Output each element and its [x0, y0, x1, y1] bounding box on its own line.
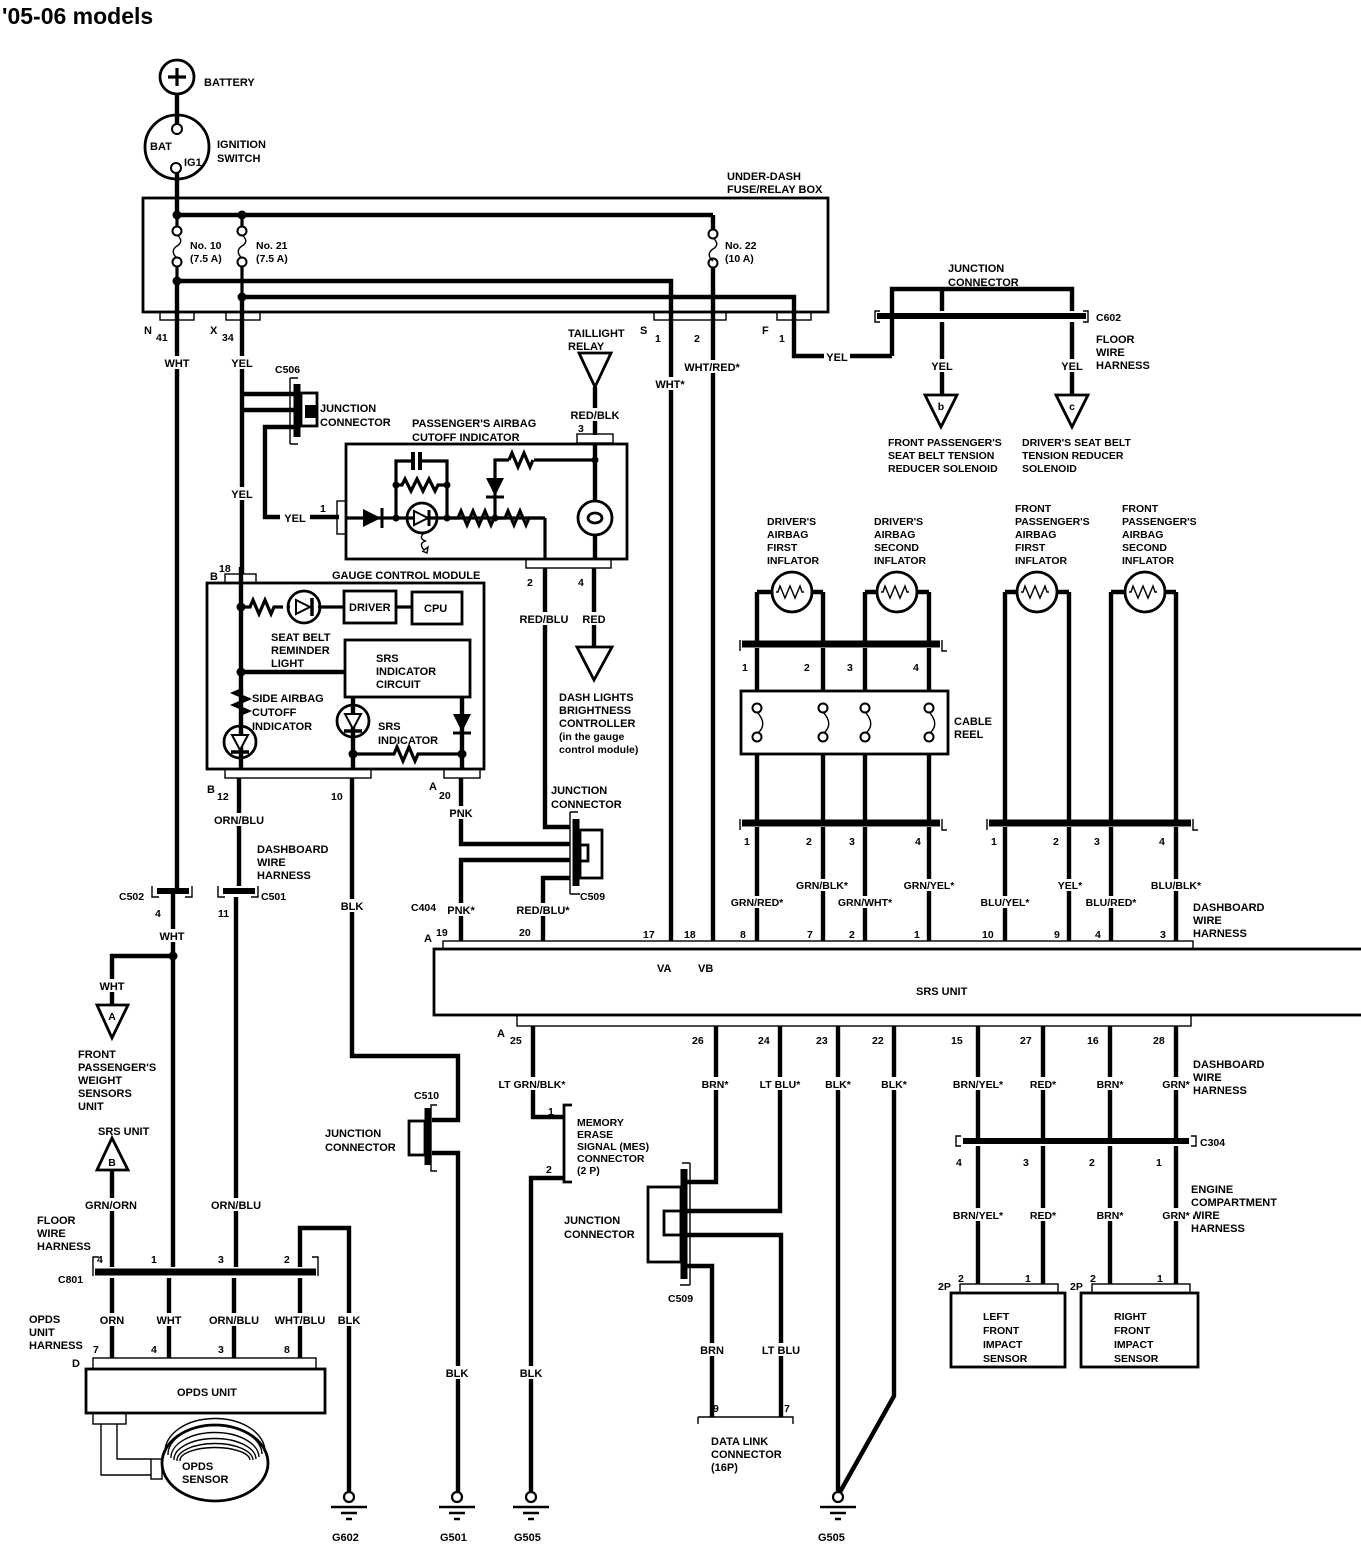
bus wire C (fuse21 out to pin F)	[242, 297, 794, 312]
svg-text:c: c	[1069, 401, 1075, 413]
svg-text:RED: RED	[582, 614, 605, 626]
svg-text:SEAT BELT: SEAT BELT	[271, 632, 331, 644]
svg-text:BATTERY: BATTERY	[204, 77, 255, 89]
svg-text:OPDS: OPDS	[29, 1314, 60, 1326]
svg-text:UNDER-DASH: UNDER-DASH	[727, 171, 801, 183]
svg-text:REDUCER SOLENOID: REDUCER SOLENOID	[888, 463, 998, 475]
fuse No.21 (7.5A)	[238, 219, 288, 293]
svg-text:WHT: WHT	[99, 981, 124, 993]
front passenger's airbag first inflator	[1005, 503, 1090, 612]
node G3	[349, 750, 358, 759]
svg-text:CONNECTOR: CONNECTOR	[325, 1142, 396, 1154]
SRS unit box	[434, 941, 1361, 1026]
wire branch to triangle A	[112, 956, 173, 1005]
svg-text:TAILLIGHT: TAILLIGHT	[568, 328, 625, 340]
node J1	[492, 515, 499, 522]
svg-text:C801: C801	[58, 1274, 83, 1286]
svg-text:WHT: WHT	[164, 358, 189, 370]
svg-text:ORN/BLU: ORN/BLU	[214, 815, 264, 827]
wire RED/BLU down to junction connector	[545, 568, 570, 827]
svg-text:b: b	[938, 401, 944, 413]
svg-text:1: 1	[151, 1254, 157, 1266]
wire WHT C502 down to C801 pin1	[171, 891, 175, 1267]
svg-text:12: 12	[217, 791, 229, 803]
wire ORN/BLU gauge pin12 to C501	[237, 778, 241, 886]
memory erase signal connector	[564, 1105, 649, 1182]
svg-text:1: 1	[1156, 1157, 1162, 1169]
svg-text:3: 3	[849, 836, 855, 848]
svg-text:CPU: CPU	[424, 603, 447, 615]
node G1	[237, 603, 246, 612]
svg-text:20: 20	[519, 927, 531, 939]
svg-text:AIRBAG: AIRBAG	[1122, 529, 1163, 541]
svg-text:3: 3	[218, 1344, 224, 1356]
wire to pin 2	[543, 518, 546, 559]
svg-text:FRONT: FRONT	[78, 1049, 116, 1061]
svg-text:1: 1	[1157, 1273, 1163, 1285]
svg-text:FIRST: FIRST	[767, 542, 798, 554]
node G4	[458, 750, 467, 759]
side airbag cutoff resistor (vertical)	[234, 690, 248, 714]
svg-text:BRN*: BRN*	[1097, 1079, 1125, 1091]
wires upper bar to cable reel	[757, 648, 929, 691]
svg-text:HARNESS: HARNESS	[1096, 360, 1150, 372]
connector C801	[58, 1254, 318, 1286]
svg-text:FRONT PASSENGER'S: FRONT PASSENGER'S	[888, 437, 1002, 449]
svg-text:1: 1	[779, 333, 785, 345]
wire pin2 WHT/RED* down to SRS pin 18	[711, 312, 715, 941]
resistor R3 bottom	[353, 747, 462, 761]
svg-text:HARNESS: HARNESS	[1193, 928, 1247, 940]
svg-text:RED/BLU: RED/BLU	[520, 614, 569, 626]
svg-text:4: 4	[97, 1254, 103, 1266]
svg-text:FRONT: FRONT	[983, 1325, 1020, 1337]
svg-text:HARNESS: HARNESS	[1191, 1223, 1245, 1235]
svg-text:FRONT: FRONT	[1122, 503, 1159, 515]
side airbag cutoff indicator lamp	[224, 726, 256, 758]
svg-text:A: A	[429, 781, 437, 793]
svg-text:SOLENOID: SOLENOID	[1022, 463, 1077, 475]
svg-text:CONNECTOR: CONNECTOR	[577, 1153, 645, 1165]
node J2 top right	[592, 457, 599, 464]
svg-text:DRIVER: DRIVER	[349, 602, 391, 614]
svg-text:C304: C304	[1200, 1137, 1225, 1149]
svg-text:3: 3	[1023, 1157, 1029, 1169]
dash lights brightness controller arrow	[559, 647, 638, 756]
svg-text:(10 A): (10 A)	[725, 253, 754, 265]
OPDS sensor connector	[151, 1459, 162, 1479]
wire SRS pin26 BRN* to junction connector	[687, 1026, 716, 1182]
wire PNK* out to SRS pin 19	[461, 860, 570, 941]
svg-text:1: 1	[742, 662, 748, 674]
svg-text:BRN/YEL*: BRN/YEL*	[953, 1079, 1004, 1091]
pin X/34 tab	[226, 312, 260, 320]
wire LT BLU out to DLC pin7	[687, 1235, 781, 1417]
svg-text:2: 2	[546, 1164, 552, 1176]
wires passenger inflators to lower bar	[1005, 592, 1176, 820]
svg-text:INFLATOR: INFLATOR	[1015, 555, 1068, 567]
svg-text:3: 3	[578, 423, 584, 435]
svg-text:3: 3	[1160, 929, 1166, 941]
wire YEL to triangle c	[1070, 322, 1074, 395]
wire PNK gauge pin20 to junction connector	[461, 778, 570, 844]
svg-text:UNIT: UNIT	[29, 1327, 55, 1339]
wire N41 WHT down	[175, 281, 179, 888]
svg-text:1: 1	[320, 503, 326, 515]
connector C304	[956, 1136, 1225, 1169]
wire BRN out to DLC pin9	[687, 1266, 712, 1417]
svg-text:G505: G505	[514, 1532, 541, 1544]
svg-text:SENSOR: SENSOR	[182, 1474, 229, 1486]
wire ignition to fuse box bus	[175, 173, 179, 216]
svg-text:GRN/YEL*: GRN/YEL*	[904, 880, 956, 892]
svg-text:4: 4	[915, 836, 921, 848]
svg-text:X: X	[210, 325, 218, 337]
svg-text:LT GRN/BLK*: LT GRN/BLK*	[499, 1079, 567, 1091]
junction connector C510	[325, 1090, 439, 1171]
svg-text:AIRBAG: AIRBAG	[1015, 529, 1056, 541]
svg-text:D: D	[72, 1358, 80, 1370]
wire driver-cpu	[396, 605, 412, 608]
svg-text:RED/BLK: RED/BLK	[571, 410, 620, 422]
svg-text:GRN/BLK*: GRN/BLK*	[796, 880, 849, 892]
svg-text:HARNESS: HARNESS	[29, 1340, 83, 1352]
pin N/41 tab	[160, 312, 194, 320]
svg-text:CONNECTOR: CONNECTOR	[564, 1229, 635, 1241]
svg-text:2: 2	[849, 929, 855, 941]
wire F1 YEL to junction connector	[794, 312, 892, 356]
svg-text:CABLE: CABLE	[954, 716, 992, 728]
svg-text:FRONT: FRONT	[1114, 1325, 1151, 1337]
battery	[160, 60, 255, 94]
svg-text:1: 1	[1025, 1273, 1031, 1285]
svg-text:22: 22	[872, 1035, 884, 1047]
CPU box	[412, 592, 462, 624]
ground G505 right	[818, 1492, 856, 1544]
svg-text:BLK: BLK	[341, 901, 364, 913]
svg-text:(7.5 A): (7.5 A)	[190, 253, 222, 265]
svg-text:18: 18	[219, 563, 231, 575]
resistor R1	[450, 511, 502, 525]
driver side upper connector bar	[740, 640, 947, 674]
svg-text:7: 7	[807, 929, 813, 941]
right front impact sensor	[1070, 1273, 1198, 1367]
svg-text:BAT: BAT	[150, 141, 172, 153]
svg-text:No. 10: No. 10	[190, 240, 222, 252]
wires SRS pins 15/27/16/28 down to C304	[978, 1026, 1176, 1138]
svg-text:SENSOR: SENSOR	[1114, 1353, 1159, 1365]
svg-text:BLU/YEL*: BLU/YEL*	[980, 897, 1030, 909]
svg-text:23: 23	[816, 1035, 828, 1047]
svg-text:10: 10	[331, 791, 343, 803]
node WHT branch	[169, 952, 178, 961]
svg-text:2: 2	[527, 577, 533, 589]
svg-text:4: 4	[1095, 929, 1101, 941]
connector triangle b	[888, 395, 1002, 475]
svg-text:SECOND: SECOND	[1122, 542, 1167, 554]
svg-text:PNK: PNK	[449, 808, 472, 820]
fuse No.10 (7.5A)	[173, 219, 222, 277]
svg-text:17: 17	[643, 929, 655, 941]
svg-text:19: 19	[436, 927, 448, 939]
svg-text:4: 4	[956, 1157, 962, 1169]
wire C506 out to gauge YEL label	[226, 487, 259, 500]
svg-text:4: 4	[151, 1344, 157, 1356]
svg-text:2: 2	[804, 662, 810, 674]
svg-text:4: 4	[578, 577, 584, 589]
svg-text:SIGNAL (MES): SIGNAL (MES)	[577, 1141, 649, 1153]
wire battery to ignition	[175, 94, 179, 124]
wire BLK gauge pin10 to C510	[352, 778, 458, 1120]
wires C801 to OPDS unit	[110, 1278, 114, 1358]
svg-text:24: 24	[758, 1035, 770, 1047]
svg-text:WEIGHT: WEIGHT	[78, 1075, 122, 1087]
svg-text:WHT*: WHT*	[655, 379, 685, 391]
taillight relay arrow	[568, 328, 625, 387]
svg-text:DASHBOARD: DASHBOARD	[1193, 1059, 1265, 1071]
svg-text:PASSENGER'S: PASSENGER'S	[1015, 516, 1090, 528]
svg-text:HARNESS: HARNESS	[37, 1241, 91, 1253]
svg-text:2: 2	[806, 836, 812, 848]
svg-text:ERASE: ERASE	[577, 1129, 613, 1141]
svg-text:2P: 2P	[938, 1281, 951, 1293]
svg-text:3: 3	[218, 1254, 224, 1266]
svg-text:AIRBAG: AIRBAG	[874, 529, 915, 541]
svg-text:WIRE: WIRE	[1193, 1072, 1222, 1084]
svg-text:RELAY: RELAY	[568, 341, 605, 353]
svg-text:(16P): (16P)	[711, 1462, 738, 1474]
svg-text:26: 26	[692, 1035, 704, 1047]
svg-text:BLK*: BLK*	[881, 1079, 908, 1091]
wire X34 YEL down to C506	[242, 297, 294, 574]
svg-text:No. 22: No. 22	[725, 240, 757, 252]
svg-text:28: 28	[1153, 1035, 1165, 1047]
passenger side lower connector bar	[987, 819, 1198, 848]
svg-text:N: N	[144, 325, 152, 337]
svg-text:2: 2	[284, 1254, 290, 1266]
svg-text:1: 1	[914, 929, 920, 941]
ground G501	[439, 1492, 475, 1544]
svg-text:WIRE: WIRE	[37, 1228, 66, 1240]
branch up with diode D2	[486, 453, 595, 518]
svg-text:IG1: IG1	[184, 157, 202, 169]
svg-text:3: 3	[847, 662, 853, 674]
svg-text:BLK: BLK	[338, 1315, 361, 1327]
svg-text:control module): control module)	[559, 744, 638, 756]
wire C510 to G501	[432, 1153, 458, 1493]
svg-text:CONNECTOR: CONNECTOR	[948, 277, 1019, 289]
svg-text:PASSENGER'S: PASSENGER'S	[1122, 516, 1197, 528]
svg-text:LIGHT: LIGHT	[271, 658, 304, 670]
svg-text:C510: C510	[414, 1090, 439, 1102]
svg-text:LT BLU: LT BLU	[762, 1345, 800, 1357]
wire RED down to dash lights controller	[592, 568, 596, 647]
svg-text:7: 7	[784, 1403, 790, 1415]
svg-text:RED/BLU*: RED/BLU*	[516, 905, 570, 917]
svg-text:34: 34	[222, 332, 234, 344]
svg-text:FLOOR: FLOOR	[37, 1215, 76, 1227]
svg-text:1: 1	[655, 333, 661, 345]
svg-text:S: S	[640, 325, 647, 337]
svg-text:IMPACT: IMPACT	[1114, 1339, 1154, 1351]
left front impact sensor	[938, 1273, 1065, 1367]
svg-text:YEL: YEL	[284, 513, 306, 525]
svg-text:BLU/BLK*: BLU/BLK*	[1151, 880, 1202, 892]
svg-text:2: 2	[958, 1273, 964, 1285]
svg-text:(2 P): (2 P)	[577, 1165, 600, 1177]
svg-text:B: B	[207, 784, 215, 796]
pin 1 tab left	[337, 501, 346, 534]
wire fuse22 down to pin 2	[711, 281, 715, 312]
wire SRS pin24 LT BLU* to junction connector	[687, 1026, 780, 1211]
svg-text:INDICATOR: INDICATOR	[376, 666, 436, 678]
wire SRS pin22 BLK* diagonal to G505	[840, 1026, 894, 1492]
OPDS unit box	[86, 1358, 325, 1413]
wires driver inflators to upper connector	[757, 592, 929, 641]
wire SRS pin25 LT GRN/BLK* to MES	[533, 1026, 564, 1117]
wire C801 pin2 up and over to G602	[300, 1228, 349, 1493]
svg-text:GRN*: GRN*	[1162, 1079, 1190, 1091]
ignition switch	[145, 115, 266, 179]
svg-text:9: 9	[713, 1403, 719, 1415]
junction connector upper (PNK/RED-BLU)	[551, 785, 622, 903]
svg-text:A: A	[108, 1011, 116, 1023]
svg-text:PASSENGER'S: PASSENGER'S	[78, 1062, 156, 1074]
gauge control module box	[207, 570, 484, 769]
svg-text:VA: VA	[657, 963, 672, 975]
svg-text:4: 4	[913, 662, 919, 674]
svg-text:ENGINE: ENGINE	[1191, 1184, 1233, 1196]
svg-text:SRS UNIT: SRS UNIT	[916, 986, 968, 998]
svg-text:25: 25	[510, 1035, 522, 1047]
junction connector C602 loop	[892, 263, 1072, 356]
svg-text:OPDS: OPDS	[182, 1461, 213, 1473]
svg-text:TENSION REDUCER: TENSION REDUCER	[1022, 450, 1124, 462]
wires C304 to impact sensors	[978, 1146, 1176, 1284]
svg-text:INFLATOR: INFLATOR	[874, 555, 927, 567]
svg-text:GRN/WHT*: GRN/WHT*	[838, 897, 893, 909]
svg-text:YEL*: YEL*	[1058, 880, 1083, 892]
svg-text:4: 4	[1159, 836, 1165, 848]
lamp bulb	[578, 443, 612, 559]
connector C502	[119, 886, 192, 920]
svg-text:REEL: REEL	[954, 729, 984, 741]
svg-text:SECOND: SECOND	[874, 542, 919, 554]
diode D3 (right column)	[453, 697, 471, 769]
svg-text:LEFT: LEFT	[983, 1311, 1010, 1323]
fuse No.22 (10A)	[709, 215, 757, 281]
svg-text:4: 4	[155, 908, 161, 920]
pin F/1 tab	[777, 312, 811, 320]
svg-text:YEL: YEL	[231, 358, 253, 370]
resistor seat belt	[241, 600, 283, 614]
svg-text:1: 1	[548, 1106, 554, 1118]
node bus B	[173, 277, 182, 286]
svg-text:HARNESS: HARNESS	[257, 870, 311, 882]
svg-text:DASH LIGHTS: DASH LIGHTS	[559, 692, 634, 704]
svg-text:FRONT: FRONT	[1015, 503, 1052, 515]
under-dash fuse/relay box	[143, 171, 828, 312]
svg-text:CONNECTOR: CONNECTOR	[551, 799, 622, 811]
SRS indicator LED	[337, 697, 438, 769]
wire labels GRN row	[796, 879, 849, 891]
svg-text:(in the gauge: (in the gauge	[559, 731, 624, 743]
svg-text:9: 9	[1054, 929, 1060, 941]
svg-text:YEL: YEL	[231, 489, 253, 501]
svg-text:CONTROLLER: CONTROLLER	[559, 718, 635, 730]
pin 3 tab	[577, 434, 613, 443]
svg-text:BLK: BLK	[446, 1368, 469, 1380]
RC loop	[393, 452, 451, 522]
passenger's airbag cutoff indicator box	[346, 418, 627, 559]
svg-text:B: B	[210, 571, 218, 583]
svg-text:16: 16	[1087, 1035, 1099, 1047]
svg-text:1: 1	[744, 836, 750, 848]
wire SRS pin23 BLK* to G505	[836, 1026, 840, 1491]
wires lower bars to SRS unit	[757, 827, 929, 941]
svg-text:A: A	[424, 933, 432, 945]
pin S1/2 tab	[654, 312, 726, 320]
svg-text:ORN/BLU: ORN/BLU	[211, 1200, 261, 1212]
wire RED/BLK to pin 3	[593, 387, 597, 435]
svg-text:ORN: ORN	[100, 1315, 125, 1327]
connector C602	[875, 311, 1121, 324]
svg-text:VB: VB	[698, 963, 713, 975]
DRIVER box	[344, 591, 396, 623]
svg-text:BRIGHTNESS: BRIGHTNESS	[559, 705, 631, 717]
pins 2 and 4 tab bottom	[526, 559, 611, 568]
svg-text:CUTOFF INDICATOR: CUTOFF INDICATOR	[412, 432, 520, 444]
svg-text:OPDS UNIT: OPDS UNIT	[177, 1387, 237, 1399]
OPDS sensor cable	[101, 1424, 151, 1475]
svg-text:C509: C509	[668, 1293, 693, 1305]
wire GRN/ORN to C801 pin4	[110, 1170, 114, 1267]
svg-text:UNIT: UNIT	[78, 1101, 104, 1113]
svg-text:JUNCTION: JUNCTION	[551, 785, 607, 797]
driver side lower connector bar	[740, 819, 947, 848]
svg-text:FUSE/RELAY BOX: FUSE/RELAY BOX	[727, 184, 823, 196]
svg-text:GAUGE CONTROL MODULE: GAUGE CONTROL MODULE	[332, 570, 480, 582]
connector triangle c	[1022, 395, 1131, 475]
wire YEL to triangle b	[940, 322, 944, 395]
seat belt reminder LED	[271, 591, 344, 670]
svg-text:CIRCUIT: CIRCUIT	[376, 679, 421, 691]
svg-text:C502: C502	[119, 891, 144, 903]
OPDS unit stub	[93, 1413, 126, 1424]
svg-text:(7.5 A): (7.5 A)	[256, 253, 288, 265]
svg-text:INFLATOR: INFLATOR	[1122, 555, 1175, 567]
svg-text:FLOOR: FLOOR	[1096, 334, 1135, 346]
ground G602	[331, 1492, 367, 1544]
svg-text:BRN/YEL*: BRN/YEL*	[953, 1210, 1004, 1222]
pin B/18 tab	[225, 574, 256, 583]
ground G505 left	[513, 1492, 549, 1544]
svg-text:C501: C501	[261, 891, 286, 903]
node bus A fuse10	[173, 211, 182, 220]
svg-text:DRIVER'S: DRIVER'S	[874, 516, 923, 528]
svg-text:COMPARTMENT: COMPARTMENT	[1191, 1197, 1277, 1209]
connector triangle B (from SRS unit)	[97, 1126, 150, 1170]
svg-text:IGNITION: IGNITION	[217, 139, 266, 151]
svg-text:SEAT BELT TENSION: SEAT BELT TENSION	[888, 450, 994, 462]
svg-text:HARNESS: HARNESS	[1193, 1085, 1247, 1097]
wire S1 WHT* down to SRS pin 17	[669, 312, 673, 941]
svg-text:YEL: YEL	[1061, 361, 1083, 373]
svg-text:PASSENGER'S AIRBAG: PASSENGER'S AIRBAG	[412, 418, 536, 430]
svg-text:JUNCTION: JUNCTION	[948, 263, 1004, 275]
svg-text:20: 20	[439, 790, 451, 802]
svg-text:WIRE: WIRE	[1191, 1210, 1220, 1222]
